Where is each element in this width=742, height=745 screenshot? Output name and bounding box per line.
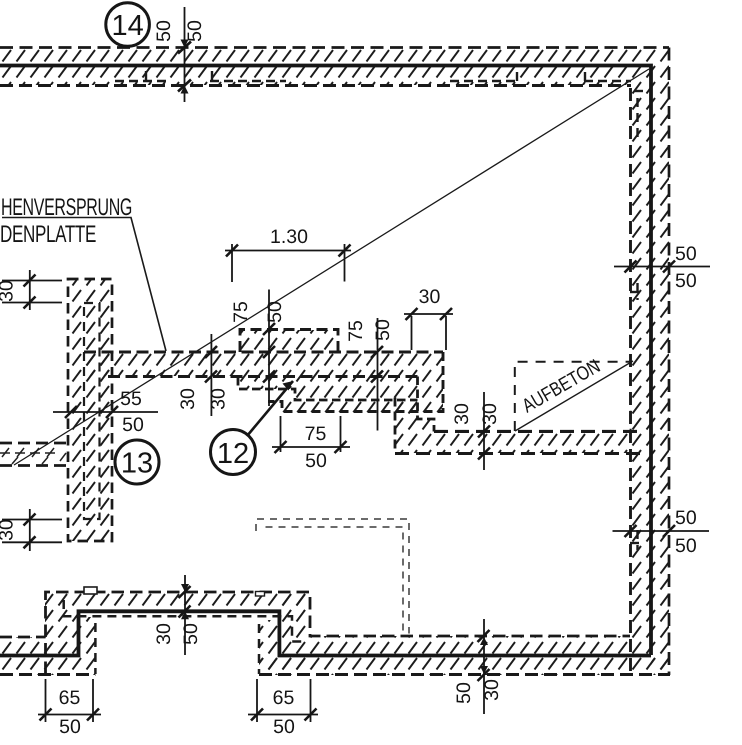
svg-text:75: 75 bbox=[230, 301, 252, 323]
hatch center band bbox=[84, 352, 443, 376]
step profile dashed line bbox=[238, 377, 418, 400]
dim 65/50 bottom right bbox=[248, 679, 318, 722]
hatch top wall inner strip (L-shape below solid + right wall inner) bbox=[0, 66, 651, 655]
svg-text:30: 30 bbox=[419, 286, 441, 308]
dim 75/50 bottom center bbox=[272, 416, 350, 453]
hatch upper plate bbox=[240, 330, 338, 352]
svg-text:75: 75 bbox=[345, 320, 367, 342]
svg-text:50: 50 bbox=[453, 682, 475, 704]
dim 30 horizontal top right of plate bbox=[404, 308, 453, 350]
bottom band left dashed top bbox=[0, 636, 46, 639]
svg-text:50: 50 bbox=[675, 243, 697, 265]
hatch bump left side bbox=[45, 611, 78, 656]
svg-text:30: 30 bbox=[479, 403, 501, 425]
circle 12 with leader bbox=[247, 381, 293, 436]
hatch lower right band bbox=[395, 400, 631, 453]
hatch bottom band right top strip bbox=[310, 636, 630, 655]
hatch bump left inner bbox=[78, 617, 95, 656]
svg-text:12: 12 bbox=[217, 438, 249, 470]
center band bottom heavy dashed bbox=[108, 375, 418, 378]
svg-text:50: 50 bbox=[184, 20, 206, 42]
left strip band top dashed bbox=[0, 442, 68, 445]
svg-text:30: 30 bbox=[177, 388, 199, 410]
svg-text:50: 50 bbox=[59, 716, 81, 738]
svg-text:30: 30 bbox=[0, 280, 18, 302]
circle 14 bbox=[106, 3, 150, 47]
leader from text to band bbox=[2, 218, 166, 352]
small white joint markers bbox=[84, 587, 97, 594]
hatch below band stepped bbox=[238, 376, 443, 412]
hatch bump right inner bbox=[259, 620, 279, 675]
svg-text:50: 50 bbox=[264, 301, 286, 323]
AUFBETON dashed box bbox=[515, 362, 631, 431]
svg-text:DENPLATTE: DENPLATTE bbox=[0, 221, 96, 248]
dim 30 left top of column bbox=[2, 270, 62, 310]
thin dashed flange outline inner bbox=[266, 527, 404, 634]
hatch bottom band left segment bbox=[0, 637, 45, 656]
bump outer dashed outline bbox=[46, 592, 631, 674]
dim 30/30 at x211 bbox=[205, 334, 217, 416]
bump inner dashed hooks bbox=[64, 600, 304, 674]
left strip band bottom dashed bbox=[0, 464, 68, 467]
svg-text:30: 30 bbox=[481, 679, 503, 701]
svg-text:50: 50 bbox=[675, 270, 697, 292]
left column inner dashed rect bbox=[84, 303, 100, 519]
center band top heavy dashed bbox=[84, 351, 443, 354]
dim 30/50 bump vertical bbox=[179, 575, 191, 655]
dim 1.30 bbox=[225, 244, 351, 282]
svg-text:50: 50 bbox=[675, 507, 697, 529]
dim 30 left bottom of column bbox=[2, 509, 62, 551]
lower band left dashed edge bbox=[394, 398, 397, 454]
dim 50/50 right wall lower bbox=[613, 525, 710, 537]
stirrup dash marks in right wall bbox=[630, 91, 644, 550]
circle 13 bbox=[115, 440, 159, 484]
hatch bump top strip bbox=[45, 592, 310, 611]
stirrup dash marks in top wall bbox=[115, 71, 631, 81]
plate right and bottom dashed edge bbox=[268, 352, 443, 412]
hatch bottom band right lower strip bbox=[259, 655, 670, 675]
bottom band bottom dashed right bbox=[259, 673, 670, 676]
step profile lower dashed bbox=[418, 377, 435, 432]
svg-text:1.30: 1.30 bbox=[270, 226, 308, 248]
svg-text:14: 14 bbox=[111, 10, 143, 42]
wall right outer dashed line bbox=[668, 48, 671, 676]
wall solid corner line bbox=[0, 66, 651, 656]
hatch top wall outer strip (L-shape top + right wall outer) bbox=[0, 48, 669, 674]
wall top outer dashed line bbox=[0, 46, 669, 49]
svg-text:30: 30 bbox=[0, 519, 18, 541]
dim 50/50 right wall upper bbox=[614, 261, 710, 273]
left column dashed outline bbox=[68, 279, 112, 541]
bottom band solid line bbox=[0, 611, 651, 655]
thin dashed flange outline outer bbox=[256, 519, 409, 634]
dim 30/30 at x484 mid bbox=[478, 392, 490, 470]
svg-text:30: 30 bbox=[208, 388, 230, 410]
upper plate dashed outline bbox=[240, 330, 338, 353]
svg-text:50: 50 bbox=[273, 716, 295, 738]
hatch left column bbox=[68, 279, 112, 541]
svg-text:13: 13 bbox=[121, 448, 153, 480]
hatch bottom band left lower bbox=[0, 656, 95, 675]
bottom band bottom dashed left bbox=[0, 673, 95, 676]
AUFBETON leader line bbox=[515, 361, 633, 431]
wall right inner dashed line bbox=[629, 88, 632, 675]
dim 65/50 bottom left bbox=[38, 679, 101, 722]
svg-text:30: 30 bbox=[153, 623, 175, 645]
dim 75/50 at x377 bbox=[371, 318, 383, 431]
diagonal reference line bbox=[14, 69, 649, 465]
svg-text:50: 50 bbox=[305, 450, 327, 472]
dim top 50/50 bbox=[178, 7, 191, 102]
dim 75/50 at x269 bbox=[263, 290, 275, 407]
svg-text:50: 50 bbox=[675, 535, 697, 557]
dim 50/30 bottom right vertical bbox=[478, 619, 490, 714]
svg-text:50: 50 bbox=[153, 20, 175, 42]
svg-text:30: 30 bbox=[451, 403, 473, 425]
svg-text:75: 75 bbox=[305, 423, 327, 445]
svg-text:65: 65 bbox=[273, 687, 295, 709]
svg-text:50: 50 bbox=[372, 319, 394, 341]
lower band bottom heavy dashed bbox=[395, 452, 641, 455]
svg-text:50: 50 bbox=[122, 414, 144, 436]
hatch bump right side bbox=[279, 592, 310, 675]
dim 55/50 at column bbox=[53, 406, 158, 418]
svg-text:55: 55 bbox=[120, 388, 142, 410]
svg-text:65: 65 bbox=[59, 687, 81, 709]
svg-text:50: 50 bbox=[180, 623, 202, 645]
wall top inner dashed line bbox=[0, 84, 631, 87]
lower band top heavy dashed bbox=[434, 430, 641, 433]
hatch left strip band plus marks bbox=[0, 448, 66, 464]
